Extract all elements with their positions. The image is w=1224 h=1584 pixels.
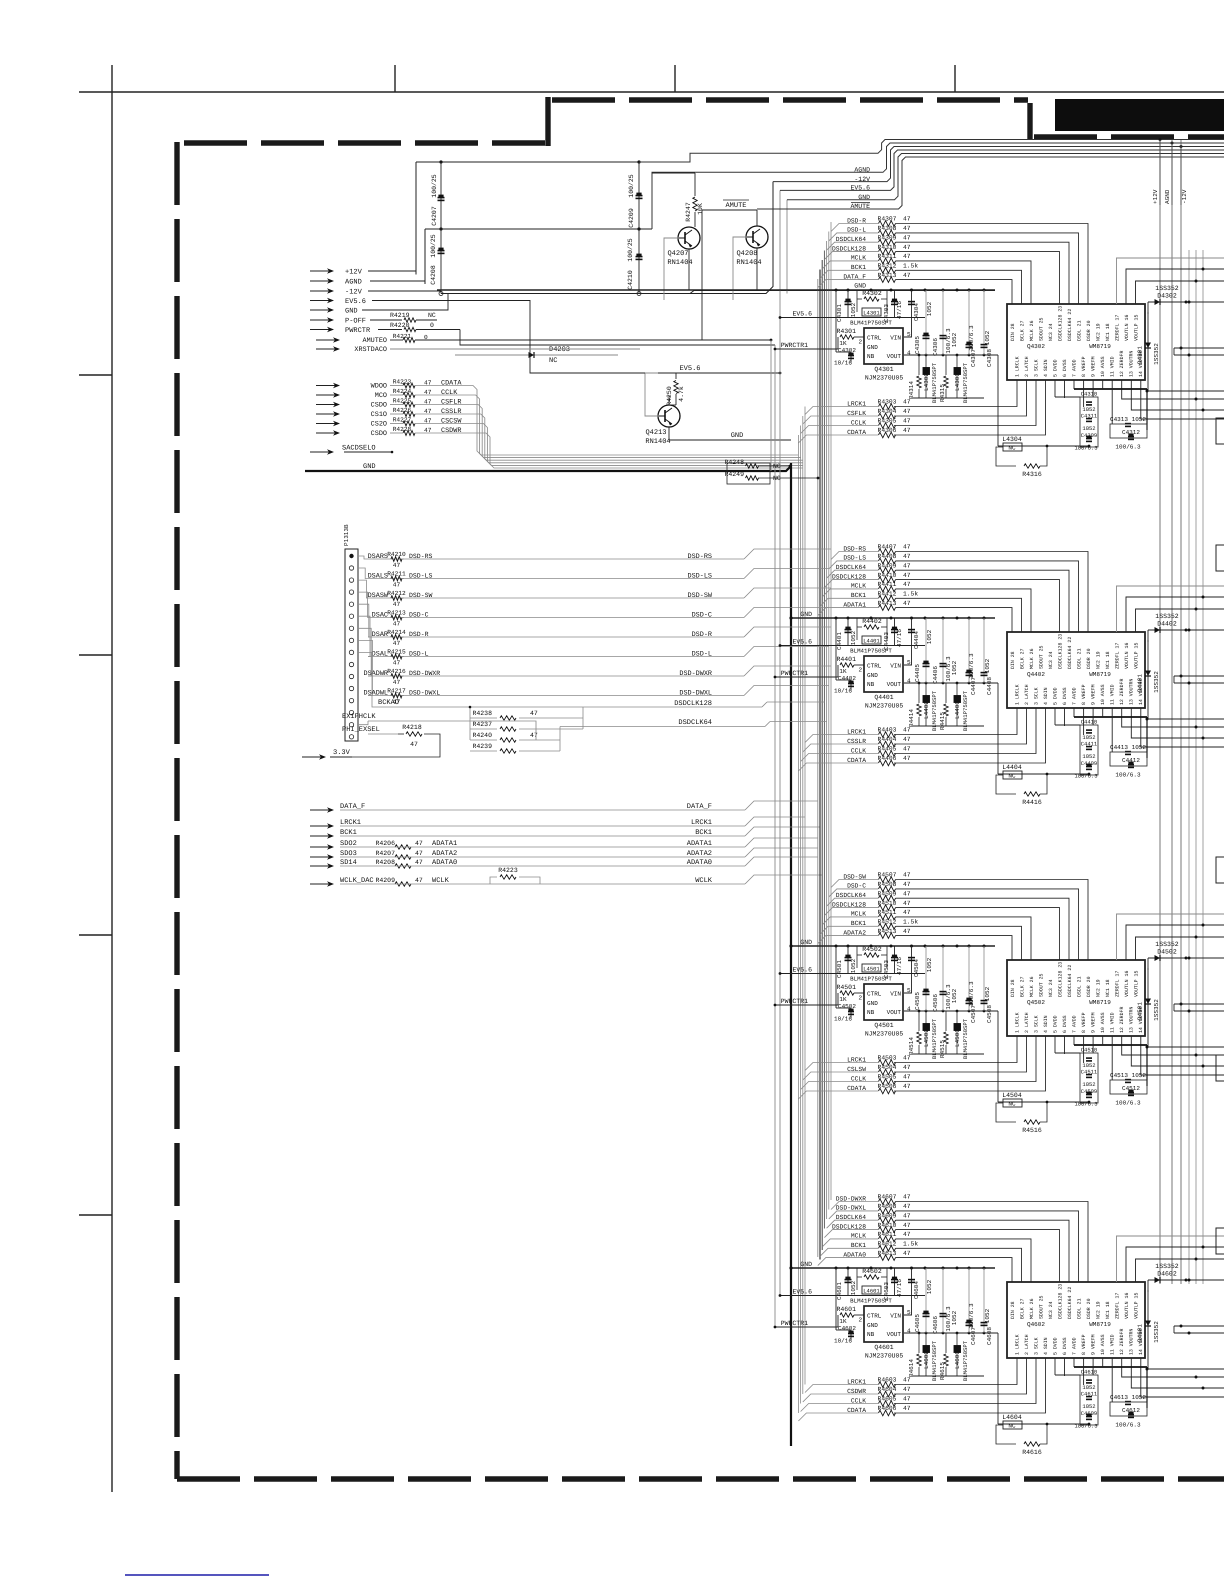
- capacitor C4610: [1086, 1379, 1092, 1381]
- svg-text:NC3 24: NC3 24: [1048, 651, 1054, 669]
- wire LRCK1 rise: [745, 817, 805, 826]
- svg-text:1SS352: 1SS352: [1155, 613, 1179, 620]
- svg-text:R4225: R4225: [393, 397, 412, 404]
- svg-text:C4306: C4306: [932, 338, 939, 356]
- wire BCK1 to DAC: [896, 1248, 1022, 1282]
- svg-text:7 AVDD: 7 AVDD: [1072, 1337, 1078, 1355]
- capacitor C4402: [835, 665, 837, 680]
- node VOUT rail junction: [983, 354, 986, 357]
- svg-text:100/6.3: 100/6.3: [1115, 444, 1141, 451]
- svg-text:VIN: VIN: [890, 663, 901, 670]
- svg-text:1K: 1K: [839, 996, 847, 1003]
- svg-text:47: 47: [903, 225, 911, 232]
- bus wire DSDCLK64 vertical: [826, 241, 828, 1219]
- inductor L4504 body: [1003, 1099, 1022, 1107]
- svg-text:SDOUT 25: SDOUT 25: [1038, 645, 1044, 669]
- resistor R4516: [996, 1103, 1016, 1122]
- wire row DSD-DWXL: [368, 695, 404, 697]
- wire VREFM down: [1092, 708, 1094, 725]
- svg-text:ADATA2: ADATA2: [687, 850, 712, 858]
- svg-text:DSDR 20: DSDR 20: [1086, 648, 1092, 669]
- wire LRCK1 to DAC: [894, 380, 1017, 407]
- svg-text:R4208: R4208: [375, 859, 395, 866]
- wire VOUTLP out: [1136, 937, 1224, 960]
- wire AGND vertical drop: [1171, 143, 1173, 205]
- resistor R4601: [835, 1268, 837, 1315]
- wire DSDCLK128 feed: [824, 252, 844, 260]
- inductor L4302: [925, 355, 927, 398]
- resistor R4607: [879, 1199, 896, 1205]
- svg-text:DSARS: DSARS: [368, 553, 388, 561]
- wire ADATA1 rise: [745, 838, 818, 847]
- diode D4502: [1148, 957, 1186, 959]
- wire DSD-RS run: [402, 558, 744, 560]
- input arrow LRCK1: [310, 825, 329, 827]
- svg-text:NC3 24: NC3 24: [1048, 1301, 1054, 1319]
- input arrow SACDSELO: [310, 451, 329, 453]
- svg-text:C4506: C4506: [932, 994, 939, 1012]
- input arrow AMUTEO: [316, 339, 335, 341]
- connector P1313B pin 2: [349, 566, 353, 570]
- svg-text:GND: GND: [731, 432, 744, 440]
- svg-text:C4502: C4502: [838, 1003, 856, 1010]
- node VOUT rail junction: [942, 1332, 945, 1335]
- wire DSD-DWXL run: [402, 695, 744, 697]
- node GND rail junction: [890, 1267, 893, 1270]
- wire GND/-12V rail: [441, 291, 995, 294]
- svg-text:C4608: C4608: [986, 1327, 993, 1345]
- wire DSD-SW row: [844, 879, 878, 881]
- node GND rail junction: [847, 1267, 850, 1270]
- wire P1313B pin 9 stub: [358, 652, 378, 707]
- wire R4247 top: [652, 172, 695, 174]
- wire VIN: [904, 318, 912, 338]
- capacitor C4611: [1086, 1396, 1092, 1398]
- svg-text:R4608: R4608: [878, 1203, 897, 1210]
- wire diode net down: [1147, 1340, 1148, 1369]
- wire DVSS down: [1064, 1036, 1066, 1054]
- inductor L4604 body: [1003, 1421, 1022, 1429]
- resistor R4411: [879, 586, 896, 592]
- wire LRCK1 row: [848, 1384, 878, 1386]
- wire thick drop: [1146, 1045, 1148, 1086]
- svg-text:R4213: R4213: [387, 610, 406, 617]
- svg-text:47: 47: [903, 736, 911, 743]
- svg-text:VOUTLN 16: VOUTLN 16: [1124, 315, 1130, 341]
- wire AMUTE riser: [701, 210, 703, 340]
- wire AVSS rail (thick): [1074, 1366, 1147, 1368]
- svg-text:L4402: L4402: [923, 701, 930, 719]
- svg-text:13 VOUTRN: 13 VOUTRN: [1129, 679, 1135, 705]
- svg-text:47: 47: [903, 727, 911, 734]
- wire ZERDFR out: [1122, 708, 1224, 727]
- wire CSLSW feed: [803, 1072, 848, 1080]
- svg-text:12 ZERDFR: 12 ZERDFR: [1119, 679, 1125, 705]
- wire ADATA2 row: [844, 935, 878, 937]
- wire VOUTLP out: [1136, 1259, 1224, 1282]
- wire +12V to top band: [639, 140, 1224, 163]
- svg-text:47: 47: [903, 427, 911, 434]
- svg-text:L4604: L4604: [1002, 1414, 1022, 1421]
- inductor L4401: [856, 627, 858, 640]
- svg-text:R4309: R4309: [878, 234, 897, 241]
- svg-text:CSDO: CSDO: [371, 430, 387, 438]
- svg-text:9 VREFM: 9 VREFM: [1091, 356, 1097, 377]
- wire EV rail: [780, 317, 925, 319]
- svg-text:NC: NC: [773, 475, 781, 482]
- bus wire DSDCLK128 vertical: [823, 251, 825, 1229]
- svg-text:47: 47: [530, 732, 538, 739]
- svg-text:GND: GND: [800, 1261, 812, 1268]
- svg-text:13 VOUTRN: 13 VOUTRN: [1129, 1329, 1135, 1355]
- svg-text:47: 47: [903, 399, 911, 406]
- capacitor C4412: [1128, 764, 1134, 766]
- wire P1313B pin 3 to row: [358, 580, 368, 598]
- svg-text:WM8719: WM8719: [1089, 1321, 1111, 1328]
- resistor R4249: [746, 476, 759, 480]
- bus GND vertical (thick): [790, 463, 792, 1446]
- svg-text:PWRCTR1: PWRCTR1: [781, 670, 808, 677]
- svg-text:11 VMID: 11 VMID: [1110, 684, 1116, 705]
- svg-text:R4314: R4314: [908, 381, 915, 399]
- connector P1313B pin 9: [349, 650, 353, 654]
- wire PHI_EXSEL row: [368, 733, 398, 735]
- svg-text:R4304: R4304: [878, 408, 897, 415]
- wire DSDCLK128 row: [844, 579, 878, 581]
- resistor R4226: [403, 412, 415, 417]
- node VOUT rail junction: [918, 1010, 921, 1013]
- wire DSDCLK64 to DAC: [896, 1220, 1070, 1282]
- node AGND rail left: [439, 227, 442, 230]
- resistor R4606: [879, 1410, 896, 1416]
- capacitor C4305: [925, 290, 927, 355]
- inter-sheet bus vertical: [1180, 140, 1182, 1284]
- svg-text:R4237: R4237: [472, 721, 492, 728]
- wire DSD-R run: [402, 636, 744, 638]
- svg-text:R4305: R4305: [878, 418, 897, 425]
- resistor R4509: [879, 895, 896, 901]
- wire DSDCLK128 to DAC: [896, 252, 1060, 304]
- wire BCK1 to DAC: [896, 270, 1022, 304]
- svg-text:DSDL 21: DSDL 21: [1076, 976, 1082, 997]
- node GND rail junction: [870, 945, 873, 948]
- svg-text:MCLK 26: MCLK 26: [1029, 320, 1035, 341]
- wire DSDCLK64 row: [844, 1219, 878, 1221]
- node GND rail junction: [942, 289, 945, 292]
- node output junction: [1202, 737, 1205, 740]
- node PWRCTR1 tap: [774, 1326, 777, 1329]
- wire LRCK1 row: [848, 406, 878, 408]
- resistor R4611: [879, 1236, 896, 1242]
- svg-text:DSDCLK128 23: DSDCLK128 23: [1057, 962, 1063, 997]
- wire AGND rail: [425, 228, 652, 230]
- node -12V drop: [1180, 145, 1183, 148]
- resistor R4513: [879, 933, 896, 939]
- svg-text:5 DVDD: 5 DVDD: [1053, 1015, 1059, 1033]
- svg-text:DSD-L: DSD-L: [692, 651, 712, 659]
- svg-text:4 SDIN: 4 SDIN: [1043, 359, 1049, 377]
- resistor R4613: [879, 1255, 896, 1261]
- tick mark top x955: [954, 65, 956, 92]
- svg-text:L4302: L4302: [923, 373, 930, 391]
- svg-text:1K: 1K: [839, 1318, 847, 1325]
- svg-text:L4404: L4404: [1002, 764, 1022, 771]
- resistor R4238: [470, 717, 497, 719]
- wire CDATA feed: [798, 763, 848, 771]
- wire DSD source tap: [744, 666, 831, 676]
- connector P1313B pin 13: [349, 698, 353, 702]
- node output junction: [1188, 301, 1191, 304]
- svg-text:NJM2370U05: NJM2370U05: [865, 1353, 904, 1360]
- svg-text:47: 47: [393, 679, 401, 686]
- node GND rail junction: [983, 1267, 986, 1270]
- DAC IC Q4402 body: [1007, 632, 1145, 708]
- svg-text:R4616: R4616: [1022, 1449, 1042, 1456]
- capacitor C4411: [1086, 746, 1092, 748]
- wire DSDCLK64 feed: [827, 570, 844, 578]
- svg-text:100/6.3: 100/6.3: [1115, 772, 1141, 779]
- wire LRCK1 feed: [805, 1385, 848, 1393]
- node GND rail junction: [942, 617, 945, 620]
- svg-text:R4405: R4405: [878, 746, 897, 753]
- svg-text:BCLK 27: BCLK 27: [1019, 320, 1025, 341]
- svg-text:C4209: C4209: [628, 208, 635, 228]
- wire lower rail: [912, 725, 984, 727]
- svg-text:DATA_F: DATA_F: [687, 803, 712, 811]
- svg-text:2 LATCH: 2 LATCH: [1024, 1012, 1030, 1033]
- resistor R4512: [879, 924, 896, 930]
- wire ADATA2 row: [340, 856, 745, 858]
- svg-text:BLM41P750SPT: BLM41P750SPT: [962, 690, 969, 731]
- resistor R4405: [879, 751, 896, 757]
- clipped off-page box: [1216, 1055, 1224, 1081]
- svg-text:100/6.3: 100/6.3: [1115, 1100, 1141, 1107]
- wire AVSS down: [1102, 1358, 1104, 1367]
- wire D4602 join: [1147, 1280, 1149, 1292]
- clipped off-page box: [1216, 857, 1224, 883]
- wire DSD-C run: [402, 617, 744, 619]
- svg-text:47: 47: [393, 562, 401, 569]
- resistor R4510: [879, 905, 896, 911]
- diode D4501: [1147, 968, 1149, 1018]
- wire DSD-DWXR run: [402, 675, 744, 677]
- wire CSSLR row: [848, 743, 878, 745]
- svg-text:47: 47: [393, 640, 401, 647]
- connector P1313B body: [345, 549, 358, 741]
- wire row DSD-C: [368, 617, 404, 619]
- svg-text:47: 47: [903, 909, 911, 916]
- input arrow 3.3V: [302, 756, 321, 758]
- wire VOUT rail: [904, 682, 998, 684]
- wire cap ladder frame: [1080, 397, 1098, 447]
- wire GND rail: [437, 289, 995, 291]
- node GND rail junction: [835, 289, 838, 292]
- wire CSFLK row: [848, 415, 878, 417]
- inductor L4503: [956, 1011, 958, 1054]
- svg-text:4: 4: [907, 350, 911, 357]
- svg-text:R4220: R4220: [390, 322, 410, 329]
- wire P1313B pin 5 to row: [358, 604, 369, 637]
- svg-text:NC2 19: NC2 19: [1095, 651, 1101, 669]
- inter-sheet bus vertical: [1171, 140, 1173, 1284]
- svg-text:47: 47: [415, 850, 423, 857]
- svg-text:R4606: R4606: [878, 1405, 897, 1412]
- node VOUT rail junction: [956, 1332, 959, 1335]
- board outline dashed left side: [174, 142, 179, 1479]
- node output junction: [1195, 398, 1198, 401]
- resistor R4311: [879, 258, 896, 264]
- wire DSD-DWXR row: [844, 1201, 878, 1203]
- svg-text:R4409: R4409: [878, 562, 897, 569]
- resistor R4413: [879, 605, 896, 611]
- resistor R4221: [403, 338, 415, 343]
- svg-text:L4603: L4603: [954, 1351, 961, 1369]
- svg-text:R4413: R4413: [878, 600, 897, 607]
- svg-text:DSDCLK64 22: DSDCLK64 22: [1067, 309, 1073, 341]
- diode D4402: [1148, 629, 1186, 631]
- clipped off-page box: [1216, 545, 1224, 571]
- wire AVSS rail (thick): [1074, 388, 1147, 390]
- svg-text:8 VREFP: 8 VREFP: [1081, 684, 1087, 705]
- svg-text:BCLK 27: BCLK 27: [1019, 1298, 1025, 1319]
- svg-text:47: 47: [903, 572, 911, 579]
- svg-text:7 AVDD: 7 AVDD: [1072, 359, 1078, 377]
- wire MCLK feed: [822, 261, 844, 269]
- node output junction: [1195, 936, 1198, 939]
- svg-text:1SS352: 1SS352: [1153, 671, 1160, 693]
- node GND rail junction: [847, 945, 850, 948]
- svg-text:D4301: D4301: [1137, 346, 1144, 364]
- svg-text:CCLK: CCLK: [441, 389, 458, 397]
- svg-text:R4223: R4223: [393, 378, 412, 385]
- wire thick drop: [1146, 1367, 1148, 1408]
- svg-text:ADATA0: ADATA0: [687, 859, 712, 867]
- resistor R4223: [403, 383, 415, 388]
- wire MCLK feed: [822, 1239, 844, 1247]
- wire ZERDFR out: [1122, 380, 1224, 399]
- wire signal feed: [390, 432, 403, 434]
- svg-text:1SS352: 1SS352: [1153, 343, 1160, 365]
- svg-text:100/6.3: 100/6.3: [1115, 1422, 1141, 1429]
- svg-text:R4612: R4612: [878, 1241, 897, 1248]
- wire LRCK1 to DAC: [894, 708, 1017, 735]
- tick mark left y655: [79, 654, 112, 656]
- capacitor C4410: [1086, 729, 1092, 731]
- DAC IC Q4602 body: [1007, 1282, 1145, 1358]
- resistor R4206: [395, 845, 411, 849]
- svg-text:11 VMID: 11 VMID: [1110, 1334, 1116, 1355]
- board outline dashed top-mid segment: [552, 97, 1028, 102]
- node output junction: [1202, 1387, 1205, 1390]
- svg-text:NC1 18: NC1 18: [1105, 979, 1111, 997]
- svg-text:DSD-DWXL: DSD-DWXL: [679, 690, 712, 698]
- wire GND feed: [362, 294, 448, 311]
- svg-text:AMUTE: AMUTE: [850, 203, 870, 210]
- node diode net junction: [1146, 1046, 1149, 1049]
- svg-text:1SS352: 1SS352: [1155, 1263, 1179, 1270]
- svg-text:1052: 1052: [951, 988, 958, 1003]
- wire vout to ladder: [997, 1333, 999, 1424]
- svg-text:47: 47: [903, 872, 911, 879]
- svg-text:R4509: R4509: [878, 890, 897, 897]
- svg-text:NJM2370U05: NJM2370U05: [865, 703, 904, 710]
- svg-text:Q4301: Q4301: [874, 366, 893, 373]
- wire DATA_F row: [340, 809, 745, 811]
- svg-text:DIN 28: DIN 28: [1010, 979, 1016, 997]
- wire DSD source tap: [744, 627, 831, 637]
- svg-text:0: 0: [430, 322, 434, 329]
- wire signal run to bus: [415, 414, 803, 463]
- svg-text:C4411: C4411: [1081, 741, 1098, 748]
- svg-text:DSDR 20: DSDR 20: [1086, 1298, 1092, 1319]
- wire ladder bottom: [998, 445, 1089, 447]
- wire BCK1 row: [340, 835, 745, 837]
- svg-text:4 SDIN: 4 SDIN: [1043, 687, 1049, 705]
- wire DSDCLK128 feed: [824, 580, 844, 588]
- svg-text:C4610: C4610: [1081, 1369, 1098, 1376]
- wire ADATA2 feed: [818, 936, 844, 944]
- wire DSD-DWXR to DAC: [896, 1202, 1089, 1283]
- svg-text:L4301: L4301: [863, 310, 880, 317]
- node GND rail junction: [835, 617, 838, 620]
- svg-text:NB: NB: [867, 1331, 875, 1338]
- svg-text:R4614: R4614: [908, 1359, 915, 1377]
- wire AVDD down: [1073, 1358, 1075, 1367]
- node PWRCTR1 tap: [774, 1004, 777, 1007]
- bus wire PWRCTR1 vertical: [774, 345, 776, 1327]
- svg-text:2 LATCH: 2 LATCH: [1024, 356, 1030, 377]
- svg-text:R4407: R4407: [878, 544, 897, 551]
- wire BCK1 row: [844, 597, 878, 599]
- svg-text:ZERDFL 17: ZERDFL 17: [1114, 643, 1120, 669]
- svg-text:2 LATCH: 2 LATCH: [1024, 1334, 1030, 1355]
- capacitor C4605: [925, 1268, 927, 1333]
- wire CCLK to DAC: [894, 708, 1036, 754]
- connector P1313B pin 16: [349, 735, 353, 739]
- wire BCK1 feed: [820, 598, 844, 606]
- svg-text:5 DVDD: 5 DVDD: [1053, 687, 1059, 705]
- input arrow MCO: [316, 394, 335, 396]
- input arrow DATA_F: [310, 809, 329, 811]
- svg-text:DSADWR: DSADWR: [364, 670, 388, 678]
- svg-text:4 SDIN: 4 SDIN: [1043, 1337, 1049, 1355]
- node ladder junction: [1046, 445, 1049, 448]
- wire ADATA0 row: [340, 865, 745, 867]
- wire VOUTLP out: [1136, 609, 1224, 632]
- svg-text:C4601: C4601: [836, 1282, 843, 1300]
- tick mark top x395: [394, 65, 396, 92]
- node GND rail junction: [983, 617, 986, 620]
- inductor L4402: [925, 683, 927, 726]
- svg-text:47/16: 47/16: [896, 957, 903, 975]
- wire lower rail: [912, 1053, 984, 1055]
- wire DSD-SW to DAC: [896, 880, 1089, 961]
- wire DSDCLK64 row: [560, 726, 765, 728]
- resistor R4308: [879, 230, 896, 236]
- node output junction: [1188, 1332, 1191, 1335]
- svg-text:Q4207: Q4207: [667, 250, 688, 258]
- svg-text:R4215: R4215: [387, 649, 406, 656]
- svg-text:2: 2: [859, 995, 863, 1002]
- transistor Q4213: [658, 405, 680, 427]
- wire CDATA feed: [798, 1413, 848, 1421]
- node output junction: [1180, 1325, 1183, 1328]
- wire signal feed: [390, 385, 403, 387]
- svg-text:NJM2370U05: NJM2370U05: [865, 1031, 904, 1038]
- svg-text:1052: 1052: [951, 1310, 958, 1325]
- wire out aux3: [1174, 682, 1224, 684]
- wire BCK1 to DAC: [896, 926, 1022, 960]
